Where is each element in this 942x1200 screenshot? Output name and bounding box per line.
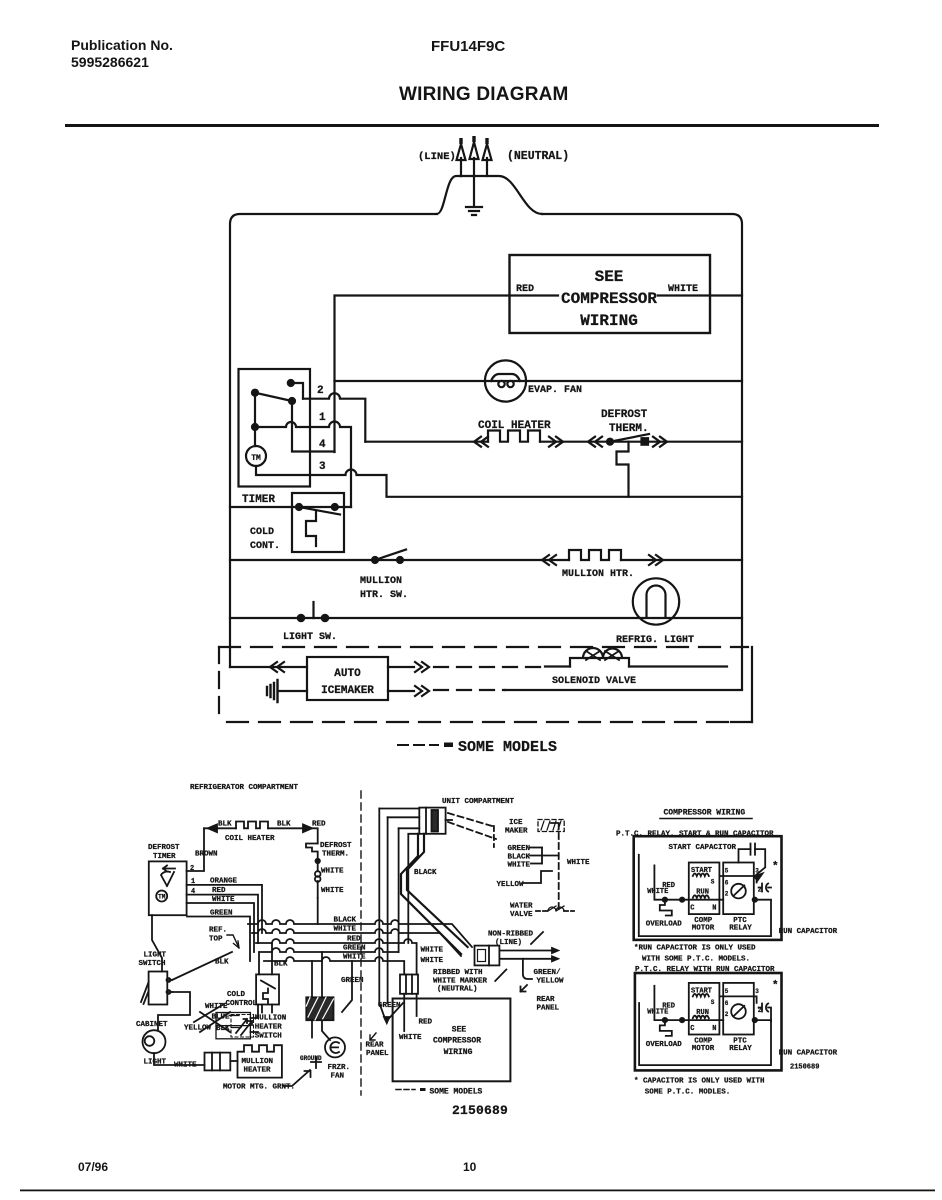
svg-text:RED: RED	[212, 887, 226, 895]
svg-text:(NEUTRAL): (NEUTRAL)	[437, 986, 478, 994]
svg-text:COMPRESSOR: COMPRESSOR	[433, 1037, 481, 1046]
cold control zigzag (lower)	[263, 989, 268, 1004]
mullion switch dashed outline	[231, 1015, 254, 1038]
wire: mullion heater row	[230, 559, 742, 561]
rear panel left arrow	[370, 1033, 376, 1040]
plug prong (line) tip	[459, 138, 462, 144]
svg-text:MULLION HTR.: MULLION HTR.	[562, 569, 634, 580]
wire: timer down to light switch	[152, 915, 162, 971]
svg-text:START CAPACITOR: START CAPACITOR	[669, 844, 737, 852]
wire: riser 3	[398, 828, 400, 952]
cold control switch arm	[299, 507, 340, 515]
svg-text:*: *	[772, 861, 779, 873]
defrost therm sensing zigzag	[617, 442, 629, 497]
wire: timer white lead	[187, 903, 254, 952]
wire: crossing cluster a	[200, 1012, 230, 1032]
compressor plug pins	[406, 975, 412, 994]
wire: icemaker line feed	[230, 666, 307, 668]
wire: black bundle row	[248, 920, 472, 947]
wire: timer pin 2 stub to brown riser	[187, 828, 204, 871]
node: cold control right contact	[332, 504, 338, 510]
unit compartment main connector	[419, 808, 445, 834]
legend dashed sample	[398, 744, 438, 746]
svg-text:WATER: WATER	[510, 903, 533, 911]
node: timer contact b	[252, 390, 258, 396]
light switch terminals	[167, 980, 172, 992]
node: defrost therm right contact	[642, 438, 649, 445]
footer rule	[20, 1190, 935, 1192]
plug prong (ground) tip	[472, 136, 475, 142]
svg-text:NON-RIBBED: NON-RIBBED	[488, 931, 534, 939]
mullion heater element box castellated	[238, 1045, 282, 1077]
svg-text:RUN CAPACITOR: RUN CAPACITOR	[779, 928, 838, 936]
wire: cabinet light return to mullion heater	[154, 1053, 205, 1065]
water valve dashes	[536, 910, 547, 912]
cold control bellows zigzag	[306, 512, 316, 546]
svg-text:(LINE): (LINE)	[495, 939, 522, 947]
node: timer contact c	[289, 398, 295, 404]
svg-text:REFRIG. LIGHT: REFRIG. LIGHT	[616, 635, 694, 646]
chevron arrows out of mullion heater	[649, 555, 663, 565]
dashed some-models box top	[219, 646, 748, 648]
chevron arrows into icemaker	[270, 662, 284, 672]
lower coil heater element	[236, 822, 268, 829]
solenoid valve coil L2	[570, 648, 629, 667]
svg-text:WHITE: WHITE	[567, 859, 590, 867]
svg-text:RIBBED WITH: RIBBED WITH	[433, 969, 483, 977]
non-ribbed callout bracket	[531, 932, 543, 944]
svg-text:*RUN CAPACITOR IS ONLY USED: *RUN CAPACITOR IS ONLY USED	[634, 945, 756, 953]
svg-text:WHITE: WHITE	[421, 957, 444, 965]
refrigerator light bulb L1	[633, 578, 679, 624]
svg-text:3: 3	[319, 461, 326, 473]
wire: red feed to compressor box	[335, 296, 559, 453]
svg-text:FAN: FAN	[331, 1073, 345, 1081]
svg-text:BLK: BLK	[218, 821, 232, 829]
evap fan winding loop b	[507, 381, 513, 387]
svg-text:SOME P.T.C. MODLES.: SOME P.T.C. MODLES.	[645, 1089, 731, 1097]
svg-text:10: 10	[463, 1160, 477, 1174]
wire: green bundle row	[260, 948, 399, 952]
svg-text:WIRING: WIRING	[580, 312, 638, 330]
mullion heater switch arm	[375, 550, 406, 561]
blue-blk connector block	[216, 1013, 250, 1039]
svg-text:TM: TM	[158, 894, 166, 901]
svg-text:EVAP. FAN: EVAP. FAN	[528, 385, 582, 396]
ref top arrow	[227, 935, 239, 948]
wire: white2 bundle row	[264, 957, 404, 975]
timer switch arm	[255, 393, 292, 401]
wire: light switch row	[230, 617, 742, 619]
svg-text:DEFROST: DEFROST	[601, 409, 648, 421]
wire: white from compressor box to neutral side	[658, 294, 742, 296]
wire: icemaker dashed vertical	[551, 823, 559, 913]
wire: ribbed neutral out	[499, 958, 552, 960]
wire: evap fan branch	[335, 380, 743, 382]
chevron arrows icemaker bottom out	[415, 686, 429, 696]
arrowhead into coil heater left	[208, 825, 217, 833]
svg-text:HEATER: HEATER	[244, 1067, 272, 1075]
wire: lower coil heater row right lead	[268, 828, 318, 843]
rear panel arrow (right)	[521, 985, 528, 992]
dashed some-models box bottom	[219, 721, 752, 723]
chevron arrows into coil heater	[474, 437, 488, 447]
connector block stubs	[250, 1005, 258, 1033]
node: therm lower terminal	[316, 859, 320, 863]
node: timer contact a	[288, 380, 294, 386]
timer internal wire to motor	[254, 393, 256, 446]
chevron arrows into defrost therm	[588, 437, 602, 447]
lower legend dashes	[396, 1089, 415, 1091]
svg-text:YELLOW: YELLOW	[184, 1025, 212, 1033]
icemaker stub bracket	[542, 848, 559, 864]
wire: white lead down to bundle	[317, 898, 319, 924]
svg-text:ICE: ICE	[509, 819, 523, 827]
svg-text:WHITE: WHITE	[321, 868, 344, 876]
svg-text:WHITE: WHITE	[508, 861, 531, 869]
lower defrost thermostat zigzag	[306, 844, 318, 859]
svg-text:TM: TM	[251, 454, 261, 463]
svg-text:ORANGE: ORANGE	[210, 878, 238, 886]
svg-text:RED: RED	[516, 284, 534, 295]
wire: icemaker dashed harness b	[448, 822, 496, 839]
svg-text:GREEN: GREEN	[378, 1002, 401, 1010]
neutral harness connector	[475, 946, 500, 966]
wire: fan leads up	[312, 952, 322, 997]
panel 1 run capacitor symbol	[759, 884, 771, 892]
plug prong (neutral) arrowhead	[483, 144, 492, 160]
svg-text:THERM.: THERM.	[609, 423, 649, 435]
wire: connector to mullion heater	[230, 1060, 237, 1062]
svg-text:SOME MODELS: SOME MODELS	[430, 1088, 483, 1097]
svg-text:2: 2	[317, 385, 324, 397]
evap fan motor M1	[485, 360, 526, 401]
svg-text:RED: RED	[419, 1019, 433, 1027]
svg-text:4: 4	[191, 888, 195, 896]
light switch hatch	[141, 982, 149, 1004]
svg-text:DEFROST: DEFROST	[148, 844, 180, 852]
cold control box (lower)	[256, 974, 279, 1004]
svg-text:SEE: SEE	[452, 1026, 467, 1035]
wire: timer pin 2 to coil heater row	[303, 393, 365, 442]
wire: white stub	[531, 863, 542, 865]
ground stub at fan	[311, 1057, 321, 1068]
wire: riser 4	[408, 834, 419, 943]
coil heater element R1	[488, 431, 540, 442]
connector block divider	[216, 1025, 250, 1027]
svg-text:CONTROL: CONTROL	[226, 1000, 258, 1008]
freezer fan motor block	[306, 997, 333, 1020]
svg-text:WIRING: WIRING	[444, 1048, 473, 1057]
mullion heater element R2	[569, 550, 621, 560]
panel 2 white loop	[639, 1003, 771, 1065]
evap fan winding loop a	[498, 381, 504, 387]
timer box	[239, 369, 311, 487]
compressor panel 2 box	[635, 973, 782, 1070]
wire: riser 2	[387, 817, 389, 1003]
plug prong (neutral)	[486, 158, 488, 176]
mullion heater connector pins	[212, 1053, 220, 1071]
svg-text:DEFROST: DEFROST	[320, 842, 352, 850]
svg-text:BLACK: BLACK	[508, 853, 531, 861]
svg-text:FRZR.: FRZR.	[328, 1064, 351, 1072]
svg-text:GROUND: GROUND	[300, 1055, 322, 1062]
wire: feed line 3 to connector	[399, 827, 420, 829]
header rule	[65, 124, 879, 127]
wire: dashed run to solenoid valve	[434, 666, 545, 668]
wire: white main diagonal	[401, 834, 461, 954]
svg-text:SWITCH: SWITCH	[255, 1033, 282, 1041]
node: light sw left contact	[298, 615, 304, 621]
blue dash lead	[230, 1015, 240, 1017]
svg-text:WHITE: WHITE	[321, 887, 344, 895]
connector bead a	[315, 871, 321, 877]
svg-text:2150689: 2150689	[790, 1064, 819, 1072]
panel 1 start capacitor circuit	[739, 849, 766, 875]
svg-text:WHITE MARKER: WHITE MARKER	[433, 977, 488, 985]
wire: connector stub right	[446, 819, 452, 821]
timer internal wire common to pin 2	[291, 383, 303, 399]
wire: coil heater row	[365, 441, 742, 443]
svg-text:TIMER: TIMER	[242, 494, 275, 506]
svg-text:RUN CAPACITOR: RUN CAPACITOR	[779, 1050, 838, 1058]
wire: line feed to cold control	[230, 506, 351, 508]
node: defrost therm left contact	[607, 439, 613, 445]
legend equals dash	[444, 743, 453, 748]
chevron arrows into mullion heater	[542, 555, 556, 565]
svg-text:(NEUTRAL): (NEUTRAL)	[507, 150, 569, 163]
wire: feed line 1 to connector	[379, 808, 419, 810]
fan motor glyph	[330, 1042, 339, 1053]
svg-text:2: 2	[190, 865, 194, 873]
svg-text:CONT.: CONT.	[250, 541, 280, 552]
svg-text:LIGHT SW.: LIGHT SW.	[283, 632, 337, 643]
wire: fan block to motor	[312, 1020, 330, 1040]
svg-text:BLK: BLK	[216, 1025, 230, 1033]
svg-text:FFU14F9C: FFU14F9C	[431, 38, 505, 55]
plug prong (ground)	[473, 158, 475, 206]
icemaker plug hatch	[541, 821, 561, 830]
wire: plug bump left shoulder	[437, 176, 461, 214]
dashed some-models box right	[751, 647, 753, 722]
wire: timer pin 4 to neutral vertical	[292, 401, 335, 452]
svg-text:WHITE: WHITE	[174, 1062, 197, 1070]
wire: riser 1	[378, 809, 380, 1004]
svg-text:WITH SOME P.T.C. MODELS.: WITH SOME P.T.C. MODELS.	[642, 955, 750, 963]
connector inner bar	[432, 810, 439, 832]
defrost timer motor TM	[156, 891, 167, 902]
freezer fan motor circle	[325, 1037, 345, 1057]
svg-text:YELLOW: YELLOW	[537, 977, 565, 985]
cold control switch arm (lower)	[261, 981, 275, 989]
connector inner line	[425, 808, 427, 834]
wire: line feed through timer to pin 1	[255, 422, 351, 507]
title underline	[660, 818, 752, 820]
svg-text:1: 1	[319, 412, 326, 424]
svg-text:VALVE: VALVE	[510, 911, 533, 919]
solenoid valve cross marks	[586, 651, 619, 660]
node: mullion htr sw left contact	[372, 557, 378, 563]
chevron arrows icemaker top out	[415, 662, 429, 672]
svg-text:HEATER: HEATER	[255, 1024, 283, 1032]
wire: cabinet outline right (neutral) side	[542, 214, 742, 689]
evap fan winding hump	[491, 374, 520, 381]
wire: crossing cluster c	[194, 1004, 224, 1022]
defrost timer cam arrow	[163, 866, 175, 872]
wire: water valve dashes right	[564, 910, 574, 912]
svg-text:07/96: 07/96	[78, 1160, 108, 1174]
svg-text:RED: RED	[312, 821, 326, 829]
mullion heater switch arrows	[236, 1019, 252, 1035]
connector bead b	[315, 876, 321, 882]
comp motor and ptc relay cluster panel 2	[646, 983, 771, 1053]
water valve coil	[548, 906, 564, 911]
wire: bottom neutral run solid	[505, 689, 742, 691]
compartment separator dashed line	[360, 791, 362, 1095]
svg-text:REAR: REAR	[366, 1042, 385, 1050]
svg-text:BLACK: BLACK	[414, 869, 437, 877]
node: cold control left contact	[296, 504, 302, 510]
defrost timer box	[149, 861, 187, 915]
plug prong (ground) arrowhead	[470, 142, 479, 159]
plug prong (line) arrowhead	[457, 144, 466, 160]
wire: timer green lead	[187, 917, 250, 962]
svg-text:MOTOR MTG. GRNT.: MOTOR MTG. GRNT.	[223, 1084, 295, 1092]
see compressor wiring box U10	[510, 255, 711, 333]
wire: cabinet outline left (line) side with plug bump	[230, 214, 437, 667]
lower legend dash	[420, 1088, 426, 1091]
light switch actuator tick	[312, 602, 314, 618]
svg-text:4: 4	[319, 439, 326, 451]
wire: timer pin 1 orange lead	[187, 885, 262, 933]
svg-text:REAR: REAR	[537, 996, 556, 1004]
start cap arrowhead	[754, 874, 762, 881]
wire: white bundle row	[252, 929, 461, 956]
svg-text:WHITE: WHITE	[212, 896, 235, 904]
svg-text:MAKER: MAKER	[505, 828, 528, 836]
svg-text:REF.: REF.	[209, 927, 227, 935]
refrigerator light filament	[647, 586, 666, 618]
svg-text:TIMER: TIMER	[153, 853, 176, 861]
svg-text:MULLION: MULLION	[255, 1015, 287, 1023]
wire: black main diagonal	[407, 834, 468, 947]
plug prong (line)	[460, 158, 462, 176]
svg-text:LIGHT: LIGHT	[144, 1059, 167, 1067]
wire: timer motor to pin 3	[256, 466, 310, 475]
wire: icemaker dashed harness a	[448, 813, 492, 826]
svg-text:MULLION: MULLION	[242, 1058, 274, 1066]
timer motor TM	[246, 446, 266, 466]
chevron arrows out of defrost therm	[653, 437, 667, 447]
wire: light switch to cabinet light	[158, 992, 190, 1030]
wire: yellow lead	[523, 871, 552, 883]
svg-text:Publication No.: Publication No.	[71, 37, 173, 53]
svg-text:HTR. SW.: HTR. SW.	[360, 590, 408, 601]
panel 1 white loop	[639, 855, 771, 936]
motor mtg grnd arrow	[284, 1070, 311, 1086]
wire: lower coil heater row left lead	[204, 827, 236, 829]
wire: light switch to bundle diagonal	[172, 952, 232, 980]
svg-text:COMPRESSOR: COMPRESSOR	[561, 290, 657, 308]
svg-text:COLD: COLD	[250, 527, 274, 538]
wire: icemaker dashed drop	[493, 826, 495, 847]
rear panel funnel left	[379, 1003, 385, 1020]
svg-text:WHITE: WHITE	[343, 954, 366, 962]
wire: plug bump plateau and right shoulder	[461, 176, 542, 214]
arrowhead line out	[552, 948, 558, 953]
svg-text:WHITE: WHITE	[399, 1034, 422, 1042]
svg-text:REFRIGERATOR COMPARTMENT: REFRIGERATOR COMPARTMENT	[190, 784, 299, 792]
wire: solenoid valve leads	[545, 665, 727, 667]
water inlet symbol bars	[267, 680, 278, 702]
wire: bottom neutral run dashed	[434, 689, 505, 691]
svg-text:*: *	[772, 980, 779, 992]
cold control box	[292, 493, 344, 552]
wire: green lead to fan	[342, 961, 352, 1012]
fan block hatch	[306, 997, 333, 1020]
wire: cold control feeds	[259, 943, 272, 974]
svg-text:WHITE: WHITE	[421, 947, 444, 955]
defrost thermostat switch arm	[610, 434, 649, 442]
svg-text:* CAPACITOR IS ONLY USED WITH: * CAPACITOR IS ONLY USED WITH	[634, 1078, 765, 1086]
svg-text:BLK: BLK	[277, 821, 291, 829]
svg-text:BROWN: BROWN	[195, 851, 218, 859]
wire: timer pin 4 red lead	[187, 895, 258, 943]
svg-text:BLACK: BLACK	[334, 917, 357, 925]
svg-text:(LINE): (LINE)	[418, 151, 456, 163]
compressor plug connector	[400, 975, 418, 994]
svg-text:ICEMAKER: ICEMAKER	[321, 685, 374, 697]
svg-text:CABINET: CABINET	[136, 1021, 168, 1029]
svg-text:LIGHT: LIGHT	[144, 952, 167, 960]
svg-text:SOLENOID VALVE: SOLENOID VALVE	[552, 676, 636, 687]
svg-text:GREEN: GREEN	[341, 977, 364, 985]
blk dash lead	[232, 1027, 242, 1029]
wire: timer pin 3 to defrost return	[310, 470, 742, 497]
wire: red bundle row	[256, 939, 417, 975]
svg-text:PANEL: PANEL	[366, 1050, 389, 1058]
cabinet light filament	[145, 1036, 155, 1046]
svg-text:2150689: 2150689	[452, 1103, 508, 1118]
comp motor and ptc relay cluster panel 1	[646, 863, 771, 933]
svg-text:COLD: COLD	[227, 991, 246, 999]
svg-text:GREEN/: GREEN/	[534, 969, 562, 977]
svg-text:BLK: BLK	[274, 961, 288, 969]
ribbed callout bracket	[495, 970, 506, 982]
svg-text:1: 1	[191, 878, 195, 886]
funnel tip arrow	[384, 1017, 389, 1023]
arrowhead into defrost therm	[303, 825, 312, 833]
svg-text:YELLOW: YELLOW	[497, 881, 525, 889]
arrowhead neutral out	[552, 956, 558, 961]
svg-text:WHITE: WHITE	[668, 284, 698, 295]
wire: crossing cluster b	[200, 1012, 230, 1032]
svg-text:COIL HEATER: COIL HEATER	[478, 420, 551, 432]
svg-text:COIL HEATER: COIL HEATER	[225, 835, 275, 843]
icemaker plug dashed box	[538, 820, 564, 832]
defrost timer cam arm	[161, 872, 174, 886]
wire: black stub	[530, 855, 542, 857]
svg-text:RED: RED	[347, 936, 361, 944]
neutral connector divider	[488, 946, 490, 966]
panel 2 run capacitor symbol	[759, 1004, 771, 1022]
svg-text:SOME MODELS: SOME MODELS	[458, 739, 557, 756]
svg-text:BLUE: BLUE	[212, 1013, 231, 1021]
svg-text:COMPRESSOR WIRING: COMPRESSOR WIRING	[664, 809, 746, 818]
neutral connector inner detail	[478, 950, 486, 962]
chevron arrows out of coil heater	[549, 437, 563, 447]
dashed some-models box left	[218, 647, 220, 722]
